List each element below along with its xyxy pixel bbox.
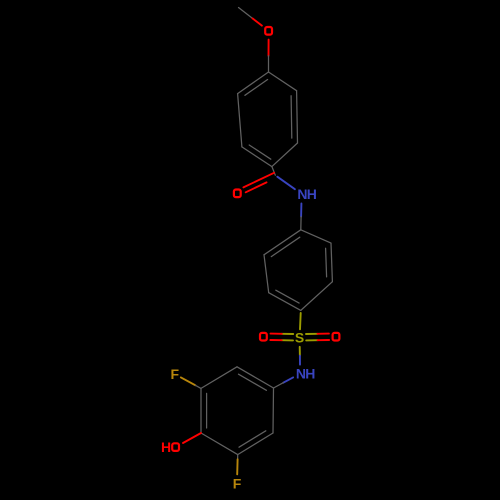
ring2 edge B2-BR2 (301, 282, 333, 311)
ring3 edge T3-TL3 (201, 367, 237, 389)
ring2 edge UL2-LL2 (264, 255, 269, 293)
bond C-N amide (277, 177, 295, 190)
ring1 edge UR1-T1 (269, 72, 297, 91)
ring2 inner double T2-UL2 (271, 237, 300, 256)
bond CH3-O methoxy (half 2) (253, 18, 262, 25)
ring1 edge T1-UL1 (238, 72, 269, 94)
double bond S=O right red half (318, 333, 329, 335)
svg-text:NH: NH (297, 186, 316, 202)
ring3 inner double TR3-T3 (239, 374, 267, 390)
ring3 edge TL3-BL3 (200, 388, 202, 433)
ring2 edge LL2-B2 (269, 293, 301, 311)
ring3 edge BL3-B3 (201, 433, 238, 455)
ring1 edge LR1-UR1 (296, 91, 299, 143)
label O methoxy (265, 27, 272, 35)
double bond S=O right olive half (306, 333, 318, 335)
svg-text:H: H (161, 439, 171, 455)
bond F-C top (half 2) (195, 385, 201, 388)
ring2 edge BR2-UR2 (331, 243, 332, 282)
double bond S=O right olive half (306, 339, 317, 341)
ring2 edge UR2-T2 (301, 230, 331, 243)
double bond S=O left olive half (282, 339, 293, 341)
double bond S=O left red half (270, 339, 281, 341)
bond O-C aryl (half 2) (268, 56, 270, 72)
bond N-C aryl (half 2) (300, 217, 302, 230)
double bond C=O amide inner line (246, 182, 267, 192)
ring1 inner double LR1-UR1 (290, 96, 293, 138)
svg-text:F: F (171, 366, 180, 382)
bond CH3-O methoxy (half 1) (239, 8, 253, 19)
double bond C=O amide outer line (243, 173, 274, 188)
ring3 inner double B3-BR3 (239, 431, 266, 447)
label O sulfonyl right (333, 333, 340, 341)
bond C-F bottom (half 2) (236, 459, 238, 474)
ring2 inner double BR2-UR2 (326, 248, 327, 277)
svg-text:S: S (295, 329, 304, 345)
double bond S=O right red half (318, 339, 330, 341)
svg-text:F: F (233, 475, 242, 491)
ring1 edge LL1-B1 (242, 147, 272, 167)
ring1 edge B1-LR1 (272, 143, 298, 167)
ring1 edge UL1-LL1 (238, 94, 242, 147)
double bond S=O left olive half (282, 333, 293, 335)
bond N-C aryl (half 1) (300, 204, 302, 217)
double bond S=O left red half (271, 333, 282, 335)
ring3 edge B3-BR3 (238, 433, 273, 455)
bond C-F bottom (half 1) (237, 455, 239, 460)
bond O-C hydroxyl (183, 433, 201, 443)
ring3 edge BR3-TR3 (272, 388, 275, 433)
bond C-S (299, 313, 302, 329)
ring2 edge T2-UL2 (264, 230, 301, 255)
bond N-C aryl bottom (half 1) (283, 377, 293, 382)
bond O-C aryl (half 1) (268, 40, 270, 56)
label O amide (234, 190, 241, 198)
ring3 edge TR3-T3 (237, 367, 274, 388)
bond ring1-carbonyl C (272, 167, 275, 176)
bond N-C aryl bottom (half 2) (274, 383, 284, 388)
ring2 inner double LL2-B2 (276, 290, 299, 303)
ring3 inner double TL3-BL3 (206, 393, 208, 428)
bond F-C top (half 1) (181, 377, 196, 385)
ring1 inner double T1-UL1 (245, 80, 268, 96)
ring1 inner double LL1-B1 (249, 145, 271, 159)
label O sulfonyl left (260, 333, 267, 341)
bond S-N (half 2) (299, 356, 301, 365)
svg-text:NH: NH (296, 366, 315, 382)
bond S-N (half 1) (299, 347, 301, 356)
